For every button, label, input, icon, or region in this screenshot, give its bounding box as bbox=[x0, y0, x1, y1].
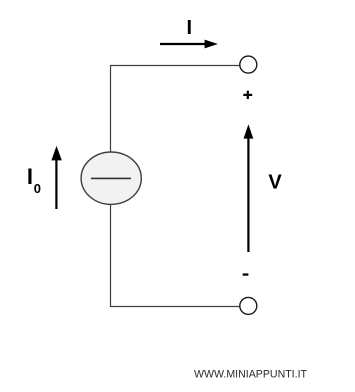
wire left upper vertical bbox=[110, 65, 112, 153]
wire top horizontal bbox=[110, 65, 240, 67]
svg-text:WWW.MINIAPPUNTI.IT: WWW.MINIAPPUNTI.IT bbox=[194, 369, 308, 381]
wire bottom horizontal bbox=[110, 306, 240, 308]
current arrow I (top) bbox=[160, 40, 218, 49]
voltage arrow V (right) bbox=[244, 124, 254, 252]
svg-text:I: I bbox=[27, 164, 33, 189]
wire left lower vertical bbox=[110, 204, 112, 307]
label plus bbox=[243, 91, 252, 99]
terminal node top (+) bbox=[240, 56, 257, 73]
svg-text:0: 0 bbox=[34, 181, 41, 196]
svg-text:I: I bbox=[187, 17, 193, 39]
terminal node bottom (-) bbox=[240, 297, 257, 314]
current source I0 inner bar bbox=[91, 177, 131, 179]
svg-text:V: V bbox=[268, 172, 282, 194]
current source I0 body bbox=[81, 152, 141, 204]
source arrow I0 (left) bbox=[51, 146, 61, 209]
label minus bbox=[243, 273, 249, 275]
